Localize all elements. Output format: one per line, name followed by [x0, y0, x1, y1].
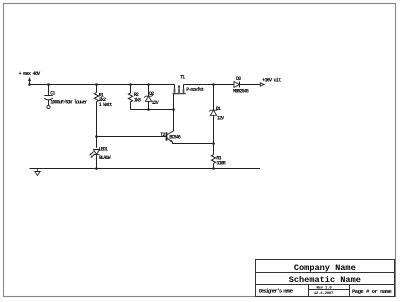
svg-text:12V: 12V — [152, 100, 159, 106]
junction C1/top rail — [47, 83, 50, 86]
title block frame — [256, 260, 395, 297]
junction D1 column/top rail — [212, 83, 215, 86]
resistor R1 — [94, 85, 98, 148]
svg-text:Company Name: Company Name — [294, 263, 356, 273]
transistor T2 (NPN) — [167, 110, 214, 144]
svg-text:Designer's name: Designer's name — [259, 288, 294, 295]
wire ground rail — [30, 168, 261, 170]
svg-text:+ max 48V: + max 48V — [19, 71, 42, 77]
zener diode D1 — [209, 109, 218, 115]
svg-text:T1: T1 — [180, 75, 185, 81]
mosfet T1 (P-channel) — [173, 85, 186, 110]
svg-text:12-4-2007: 12-4-2007 — [314, 292, 334, 296]
svg-text:1000uF/63V louwer: 1000uF/63V louwer — [50, 100, 87, 106]
svg-text:C1: C1 — [50, 90, 55, 96]
svg-text:+36V uit: +36V uit — [262, 77, 281, 83]
junction D2/top rail — [147, 83, 150, 86]
svg-text:330R: 330R — [216, 161, 225, 167]
capacitor C1 (polarized) — [44, 85, 52, 109]
junction R1/top rail — [95, 83, 98, 86]
resistor R2 — [128, 85, 132, 110]
zener diode D2 — [144, 85, 153, 110]
svg-text:P-mosfet: P-mosfet — [186, 87, 204, 93]
svg-text:D3: D3 — [236, 76, 241, 82]
junction R1/LED1/base wire — [95, 135, 98, 138]
wire node A to T2 base — [97, 136, 167, 138]
wire top rail to D1 cathode — [213, 85, 215, 111]
svg-text:MBR2545: MBR2545 — [233, 88, 249, 94]
junction R3/ground rail — [212, 167, 215, 170]
ground symbol — [35, 169, 40, 176]
svg-text:BLAUW: BLAUW — [99, 155, 111, 161]
resistor R3 — [211, 155, 215, 169]
svg-text:1k8: 1k8 — [134, 97, 141, 103]
svg-text:12V: 12V — [217, 115, 224, 121]
wire gate net (R2/D2 bottoms to T1 gate) — [131, 109, 174, 111]
supply node +48V arrow — [28, 77, 31, 85]
svg-text:Schematic Name: Schematic Name — [289, 275, 361, 285]
svg-text:D2: D2 — [149, 91, 154, 97]
wire D1 anode down to R3 — [213, 115, 215, 154]
junction T2 emitter/D1 column — [212, 142, 215, 145]
svg-text:BC546: BC546 — [169, 135, 181, 141]
LED LED1 — [90, 150, 99, 158]
junction supply/top rail — [28, 83, 31, 86]
svg-text:1 Watt: 1 Watt — [99, 102, 113, 108]
junction R2/top rail — [129, 83, 132, 86]
svg-text:LED1: LED1 — [99, 146, 108, 152]
svg-text:D1: D1 — [216, 106, 221, 112]
junction D2/gate net — [147, 108, 150, 111]
wire top rail left segment — [30, 84, 175, 86]
wire LED1 cathode to ground rail — [96, 157, 98, 169]
junction gate net/T2 collector — [172, 108, 175, 111]
diode D3 — [234, 82, 240, 88]
svg-text:Page # or name: Page # or name — [352, 288, 392, 295]
junction LED1/ground rail — [95, 167, 98, 170]
output node arrow — [260, 83, 264, 86]
svg-text:T2: T2 — [160, 132, 165, 138]
wire D3 cathode to output — [240, 84, 261, 86]
wire top rail right segment (T1 drain to D3 anode) — [184, 84, 235, 86]
svg-text:Rev 1.0: Rev 1.0 — [317, 286, 333, 290]
